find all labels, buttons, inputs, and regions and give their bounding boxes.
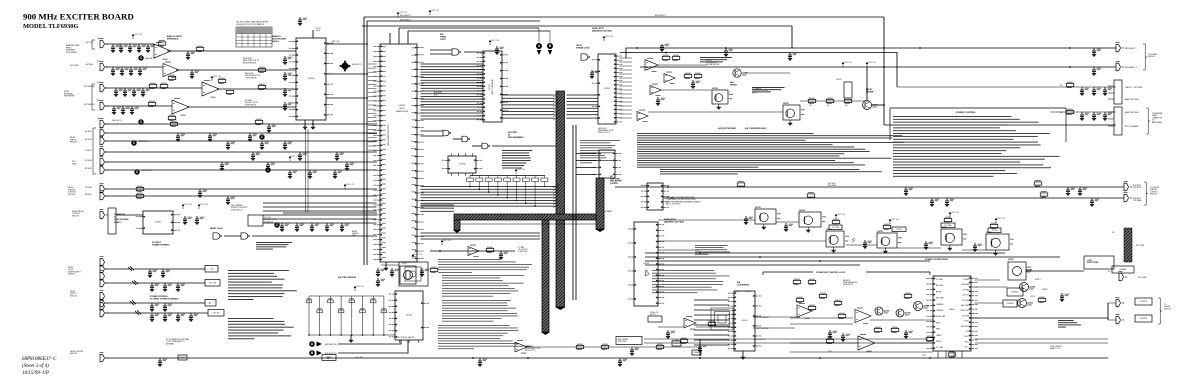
capacitor C3907 box (178, 355, 187, 360)
dac notes heading (745, 127, 767, 130)
svg-text:POWER SUPPLY: POWER SUPPLY (68, 271, 82, 273)
cell U3708b (712, 88, 733, 110)
label from station ctrl 2 (72, 210, 85, 217)
label fwd ref box (1112, 266, 1134, 273)
latch out stub 7 (619, 85, 632, 87)
label adaptive tune 2 (1125, 111, 1139, 114)
capacitor C3759 (325, 223, 334, 232)
capacitor C3712 row2 (129, 67, 138, 76)
bus left elbow (453, 220, 461, 233)
capacitor C3908 box (322, 355, 336, 361)
svg-text:9.5V GEN: 9.5V GEN (962, 315, 969, 317)
svg-text:RE REF: RE REF (936, 291, 942, 293)
exciter version heading (338, 277, 357, 279)
svg-text:CR3741: CR3741 (836, 79, 842, 81)
connector P/G fwd ref (1119, 271, 1128, 281)
spi buffer heading (610, 176, 622, 185)
gate U3704C (213, 233, 222, 239)
label heatsink temp (66, 44, 80, 54)
junction (516, 200, 518, 202)
svg-text:Q3705: Q3705 (941, 227, 947, 229)
r3741 value (809, 105, 812, 107)
label freq change (231, 204, 248, 211)
svg-text:Q3004: Q3004 (905, 312, 912, 315)
capacitor right 1105a (1103, 87, 1112, 96)
svg-text:FILT +5V: FILT +5V (952, 212, 960, 214)
svg-text:MCU: MCU (400, 108, 405, 110)
svg-text:POWER-UP: POWER-UP (114, 214, 126, 216)
resistor R3820 (136, 186, 144, 192)
label relay module line (352, 230, 358, 237)
capacitor C3761 (161, 269, 170, 278)
crystal Y3700 box (400, 266, 416, 284)
svg-text:BUS SELECT B: BUS SELECT B (325, 353, 336, 355)
IC U3002 D/A converter (728, 291, 761, 351)
svg-text:FILT +5V: FILT +5V (214, 76, 222, 78)
capacitor C3756 (280, 223, 289, 232)
svg-text:MUX SELECT 2: MUX SELECT 2 (400, 15, 412, 17)
wire v cntl out (971, 317, 1108, 319)
svg-text:NOT USED: NOT USED (1138, 277, 1147, 279)
label da out 3 (754, 339, 766, 341)
wire cell chain 3 (658, 240, 826, 242)
wire gate a in2 (430, 53, 452, 55)
svg-text:RV REF: RV REF (964, 279, 970, 281)
wire flt+5v feed (105, 282, 205, 284)
cell Q3704 (799, 209, 826, 233)
svg-text:RF/TEST: RF/TEST (706, 60, 712, 62)
data latch 1401 heading (664, 218, 684, 224)
connector P/G C3 MUX0 (100, 118, 109, 128)
capacitor C3704 top (298, 17, 307, 26)
label vcpl 1 (828, 351, 832, 353)
wire id gates 5 (492, 145, 556, 147)
capacitor Cpc165 (163, 313, 172, 322)
capacitor C3844 box (692, 350, 701, 355)
junction (327, 357, 329, 359)
supply FILT +5V module (412, 254, 423, 259)
eeprom bottom labels (396, 336, 414, 339)
op-amp U3706D (637, 110, 648, 122)
svg-text:UHF/TX: UHF/TX (70, 293, 77, 295)
sheet ref C marker 5 (259, 134, 264, 139)
label ext mw refl (84, 86, 95, 88)
wire power row 2 (645, 256, 1060, 258)
connector J3752 (1114, 107, 1122, 135)
bus VBUS C (541, 220, 550, 335)
svg-text:(SEE SHT. 2): (SEE SHT. 2) (142, 170, 152, 172)
wire pset 2 (790, 323, 853, 325)
resistor R3747 (226, 89, 234, 95)
capacitor C3914 (1092, 48, 1101, 57)
junction (929, 357, 931, 359)
svg-text:(SEE SHT. 2): (SEE SHT. 2) (352, 64, 362, 66)
vertical bus wire 1 (363, 17, 365, 265)
svg-text:FILT +5V: FILT +5V (845, 62, 853, 64)
svg-text:(FROM RESET LOGIC: (FROM RESET LOGIC (525, 348, 541, 350)
svg-text:REG COMP: REG COMP (961, 305, 969, 307)
label H2 MUX2 (85, 131, 92, 133)
label ref voltage (618, 338, 628, 343)
wire da out 2 (753, 327, 795, 329)
svg-text:T1 MUX1: T1 MUX1 (85, 150, 92, 152)
svg-text:(ADDRESS 1400 HEX): (ADDRESS 1400 HEX) (592, 30, 612, 33)
wire H2 MUX2 (105, 132, 377, 134)
bus ref marker (339, 60, 351, 72)
svg-text:MODULE: MODULE (352, 233, 358, 235)
notes dac paragraph (637, 133, 904, 168)
wire da out 1 (753, 316, 800, 318)
svg-text:NOTE 3: NOTE 3 (1035, 279, 1041, 281)
wire u3001 right 3 (975, 302, 1004, 304)
svg-text:FILT +5V: FILT +5V (444, 240, 452, 242)
svg-text:CR3001: CR3001 (1011, 292, 1019, 294)
latch out stub 3 (619, 69, 632, 71)
junction (497, 194, 499, 196)
box control 2 (1135, 315, 1152, 322)
note u3704 pins (695, 245, 730, 255)
wire to reset block (116, 214, 143, 216)
svg-text:REG GND: REG GND (936, 285, 944, 287)
capacitor C3813 (308, 170, 317, 179)
svg-text:Q3701: Q3701 (826, 229, 832, 231)
resistor R3748 (684, 73, 692, 79)
bead symbol 2 (132, 280, 138, 285)
op-amp U3704 buf (684, 316, 696, 329)
latch out stub 1 (619, 61, 632, 63)
svg-text:SHT D: SHT D (752, 92, 758, 94)
wire mod level a (644, 342, 928, 344)
svg-text:2.5V ≈ 5W: 2.5V ≈ 5W (355, 357, 363, 359)
supply FILT +5V relay1 (842, 62, 853, 67)
connector P/G bcn most (1124, 181, 1133, 191)
svg-text:PROGRAMMING: PROGRAMMING (508, 136, 524, 139)
svg-text:5V PGND: 5V PGND (962, 289, 970, 291)
svg-text:CONTROL: CONTROL (1150, 191, 1158, 193)
connector P/G NOT USED (100, 61, 109, 71)
wire control 2 (1108, 319, 1116, 321)
svg-text:PWR CNTL: PWR CNTL (961, 326, 969, 328)
capacitor right 1094b (1092, 112, 1101, 121)
svg-text:+1.2 TO +4.8 VOLT: +1.2 TO +4.8 VOLT (756, 317, 769, 319)
svg-text:MUX SELECT 0: MUX SELECT 0 (400, 20, 412, 22)
svg-text:DRIVER: DRIVER (730, 84, 737, 86)
capacitor Cpc178 (176, 313, 185, 322)
svg-text:FROM: FROM (70, 291, 75, 293)
connector P/G HEATSINK TEMP (100, 38, 109, 48)
net +5V_PC box (208, 310, 224, 317)
wire pset 3 (870, 319, 933, 321)
data latch heading (592, 27, 612, 33)
wire opamp B out (176, 69, 296, 71)
wire T1 MUX1 (105, 151, 377, 153)
wire mcu to ab 2 (408, 30, 550, 32)
wire opamp out2 (696, 326, 733, 328)
svg-text:CR3007: CR3007 (1042, 289, 1048, 291)
junction (883, 47, 885, 49)
latch out stub 0 (619, 57, 632, 59)
module U3709 inner (405, 267, 421, 281)
connector P/G power 303 (100, 290, 109, 306)
svg-text:FILT +5V: FILT +5V (135, 34, 143, 36)
capacitor C3960 (1066, 187, 1075, 196)
analog input interface heading (167, 35, 183, 41)
svg-text:LOW VOLTAGE: LOW VOLTAGE (114, 218, 129, 221)
mux out wire 1 (326, 43, 368, 45)
label see sht2 (145, 58, 155, 60)
svg-text:U3712: U3712 (406, 315, 413, 317)
jack marker A2 (309, 341, 315, 347)
capacitor C3745 (691, 80, 700, 89)
net +5V box (205, 266, 218, 273)
svg-text:MODULE: MODULE (70, 295, 77, 297)
notes spi bus 1 (438, 259, 532, 273)
supply FILT +5V top (397, 12, 408, 17)
capacitor cell 865 (863, 240, 872, 249)
label fl701 (1050, 346, 1063, 350)
svg-text:Q3702: Q3702 (877, 231, 883, 233)
title line 1 (23, 12, 134, 22)
label sl level (245, 100, 258, 106)
diode CR3001 box (1007, 288, 1023, 296)
mcu top stub 2 (398, 28, 400, 44)
vertical bus pair (306, 129, 309, 212)
junction (534, 205, 536, 207)
connector J3752 pins (1108, 112, 1114, 126)
capacitor C3720 row3 (114, 88, 123, 97)
notes spi bus 4 (438, 325, 530, 349)
svg-text:DC INPUT POWER FILTERING: DC INPUT POWER FILTERING (150, 299, 179, 301)
junction (883, 66, 885, 68)
marker A2 arrow (317, 342, 323, 347)
svg-text:TX FULL: TX FULL (896, 229, 903, 231)
junction (699, 357, 701, 359)
latch out stub 15 (619, 117, 632, 119)
resistor R3702 (255, 119, 263, 125)
label to uhf module (1148, 53, 1158, 58)
wire opamp A out (167, 50, 296, 52)
capacitor C3812 (288, 170, 297, 179)
wire cell chain 6 (962, 249, 986, 251)
junction (1069, 47, 1071, 49)
supply FILT +5V resistor row (515, 169, 526, 174)
label mux select 1 conn (1125, 67, 1137, 69)
label tx warp (672, 339, 679, 342)
junction (665, 52, 667, 54)
op-amp U3703C (202, 80, 219, 97)
IC U3701 EPROM (477, 51, 508, 122)
capacitor C3806 (298, 152, 307, 161)
svg-text:EXT ORC: EXT ORC (86, 42, 94, 44)
gate U3711A (443, 130, 451, 136)
svg-text:VCPRO 9.8V: VCPRO 9.8V (960, 310, 969, 312)
svg-text:REF LEVEL: REF LEVEL (245, 73, 254, 75)
wire opamp D out (187, 106, 296, 108)
svg-text:ROL_/: ROL_/ (965, 347, 970, 349)
svg-text:CH 1 GND: CH 1 GND (936, 347, 944, 349)
label ext adm (86, 63, 94, 66)
svg-text:A/D CONVERTER PORT: A/D CONVERTER PORT (387, 124, 390, 146)
capacitor C3702 row1 (128, 44, 137, 53)
capacitor right 1105b (1103, 112, 1112, 121)
connector P/G mod most (1124, 192, 1133, 202)
label box TX LOW (829, 225, 842, 230)
svg-text:+1.8 TO +4.2 VOLT: +1.8 TO +4.2 VOLT (756, 328, 769, 330)
capacitor cell 926 (924, 241, 933, 250)
svg-text:MOD MOST: MOD MOST (828, 185, 837, 187)
svg-text:REF MOD: REF MOD (843, 280, 851, 282)
label mux select 0 (400, 20, 412, 22)
latch out stub 10 (619, 97, 632, 99)
note power-up text (256, 242, 292, 250)
gate U3704D (241, 233, 250, 239)
diode CR3741 box (844, 82, 852, 98)
junction (1069, 66, 1071, 68)
capacitor C3147 (218, 78, 226, 84)
mcu top stub 1 (389, 33, 391, 44)
junction (479, 189, 481, 191)
resistor R3730 (708, 321, 716, 327)
label local on (650, 311, 659, 316)
wire not rly enable (884, 124, 1116, 126)
op-amp U3705 buffer (515, 340, 527, 353)
resistor R3788 (148, 101, 156, 107)
capacitor C3721 row3 (123, 88, 132, 97)
wire adaptive tune 1 (897, 86, 1116, 88)
svg-text:RESET: RESET (114, 222, 121, 224)
wire cell chain 5 (897, 247, 941, 249)
svg-text:C3907: C3907 (180, 357, 187, 359)
wire opampA out (658, 64, 706, 66)
label adaptive tune 1 (1125, 98, 1139, 101)
bus VBUS B (595, 178, 605, 232)
cell U3706 (783, 103, 805, 126)
svg-text:MODULE: MODULE (1164, 308, 1171, 310)
wire a+ feed (105, 302, 205, 304)
op-amp U3703D (172, 98, 189, 115)
latch out stub 11 (619, 101, 632, 103)
capacitor C3723 row3 (141, 88, 150, 97)
svg-text:MUX SELECT 2: MUX SELECT 2 (655, 15, 667, 17)
power filtering heading (150, 296, 179, 301)
capacitor C3962 (1090, 198, 1099, 207)
svg-text:U3002: U3002 (742, 320, 749, 322)
junction (525, 203, 527, 205)
capacitor C3758 (310, 223, 319, 232)
label see sht2 b (112, 120, 122, 122)
capacitor C3708 (186, 51, 195, 60)
svg-text:(FROM REF SLP FLT: (FROM REF SLP FLT (245, 75, 260, 77)
label nc 2 (1060, 112, 1064, 114)
svg-text:(MUX+): (MUX+) (272, 41, 279, 43)
svg-text:MOD MOST: MOD MOST (1133, 187, 1141, 189)
latch out stub 4 (619, 73, 632, 75)
label bcn most conn (1133, 185, 1141, 189)
svg-text:TO PWR CNTRL: TO PWR CNTRL (706, 62, 718, 64)
junction (883, 104, 885, 106)
supply FILT +5V btemp (441, 240, 452, 245)
capacitor bottom 2 (618, 358, 627, 367)
svg-text:0.1uF: 0.1uF (316, 30, 320, 32)
capacitor mux input y56 (283, 56, 292, 65)
label not used fr (1138, 277, 1147, 279)
svg-text:V CNTL: V CNTL (964, 321, 970, 323)
resistor R3017 (808, 279, 816, 285)
svg-text:(FROM LOOP FLT: (FROM LOOP FLT (264, 219, 277, 221)
svg-text:C3843: C3843 (674, 343, 681, 345)
capacitor C3905 (904, 187, 913, 196)
top wire mux select 0 (367, 20, 540, 22)
address bus ladder (421, 64, 484, 105)
svg-text:FILT +5V: FILT +5V (201, 204, 209, 206)
op-amp U3706E (468, 245, 479, 257)
capacitor mux input y88 (283, 88, 292, 97)
mcu top stub 3 (407, 31, 409, 44)
capacitor C3760 (148, 269, 157, 278)
wire id gates 1 (421, 130, 444, 132)
capacitor C3811 (266, 162, 275, 171)
marker A arrow (537, 50, 541, 55)
resistor R3742 (826, 98, 834, 104)
svg-text:CURRENT+: CURRENT+ (936, 304, 944, 306)
connector P/G power 313 (100, 300, 109, 316)
ground mux bottom (303, 120, 315, 130)
wire +5v feed (105, 268, 205, 270)
transistor Q3004c (1020, 283, 1036, 292)
capacitor C3732 row4 (130, 106, 139, 115)
svg-text:MUX SELECT 1: MUX SELECT 1 (1125, 67, 1137, 69)
label see sht2 c (139, 141, 149, 143)
label cr3007 (1042, 289, 1048, 291)
jack marker A (536, 43, 542, 49)
supply cell 890 (889, 219, 900, 224)
junction (699, 357, 701, 359)
resistor R3781 (196, 46, 204, 52)
IC U3705 buffer (641, 183, 669, 210)
label box TX LOAD (941, 223, 955, 228)
resistor R3903a (737, 181, 745, 187)
resistor R3749 (694, 73, 702, 79)
svg-text:EXT MW FWD: EXT MW FWD (84, 104, 95, 106)
capacitor C3021 (841, 333, 850, 342)
capacitor C3712 (420, 268, 429, 277)
svg-text:SET RESET: SET RESET (525, 346, 533, 348)
wire bcn most (615, 186, 1124, 188)
svg-text:VCPL: VCPL (922, 355, 926, 357)
resistor R3040 (1038, 297, 1046, 303)
wire long mux select 1 right (640, 66, 1116, 68)
svg-text:CIRCULATOR: CIRCULATOR (66, 51, 78, 54)
svg-text:MODULE: MODULE (70, 142, 78, 144)
svg-text:(68HC11FN): (68HC11FN) (396, 111, 409, 113)
op-amp U3000 (797, 303, 812, 319)
top wire drop right (791, 26, 793, 48)
latch out stub 5 (619, 77, 632, 79)
svg-text:CONV2–SHT 2: CONV2–SHT 2 (518, 251, 528, 253)
svg-text:INTRFC PWRS: INTRFC PWRS (1087, 262, 1098, 264)
svg-text:MODULE: MODULE (1148, 56, 1155, 58)
svg-text:FILT +5V: FILT +5V (892, 219, 900, 221)
wire SPT RES (105, 188, 377, 190)
svg-text:U3701: U3701 (489, 83, 491, 90)
connector P/G mux select 1 (1116, 61, 1125, 71)
wire gate a in1 (430, 49, 452, 51)
label vcpl 2 (922, 355, 926, 357)
long vertical wire B (575, 125, 577, 300)
svg-text:+5V_PC: +5V_PC (212, 312, 220, 314)
label address bus (434, 91, 443, 96)
latch out stub 8 (619, 89, 632, 91)
